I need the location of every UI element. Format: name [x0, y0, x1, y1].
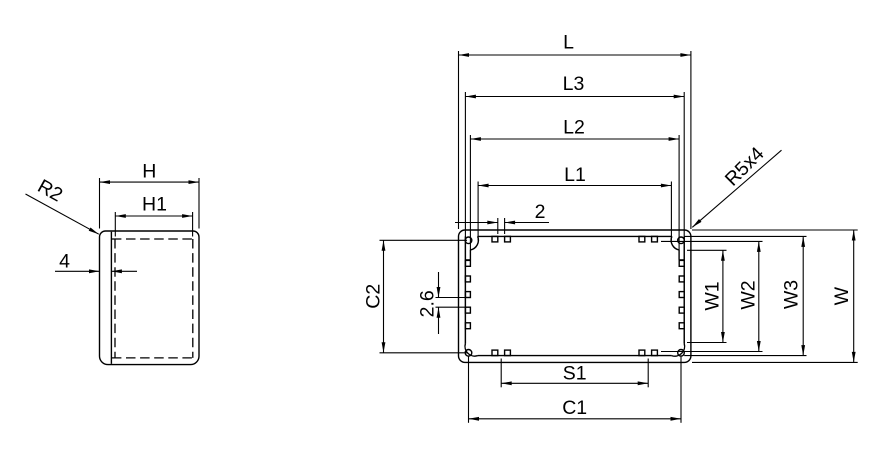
- dimension H: [99, 178, 101, 229]
- svg-text:R2: R2: [34, 175, 66, 206]
- top view inner wall left edge / L3 extension: [464, 92, 466, 344]
- radius callout R2: [26, 194, 99, 234]
- dimension C1: [468, 357, 470, 423]
- dimension W3: [684, 235, 806, 237]
- svg-text:S1: S1: [563, 362, 587, 384]
- svg-text:2.6: 2.6: [417, 290, 439, 317]
- screw hole top-right: [678, 237, 685, 244]
- dimension 4 (wall thickness): [55, 270, 100, 272]
- svg-text:W: W: [831, 286, 853, 305]
- svg-text:L: L: [563, 31, 574, 53]
- dimension L1: [477, 182, 479, 241]
- top view inner wall bottom edge: [478, 355, 672, 357]
- svg-text:L2: L2: [563, 116, 585, 138]
- svg-text:L3: L3: [563, 73, 585, 95]
- dimension L3: [465, 96, 684, 98]
- svg-text:C2: C2: [363, 284, 385, 309]
- dimension L: [458, 51, 460, 229]
- radius callout R5x4: [692, 150, 781, 227]
- top view outer body: [459, 230, 691, 362]
- svg-text:L1: L1: [564, 164, 586, 186]
- dimension W1: [687, 249, 727, 251]
- screw hole bottom-left: [465, 350, 472, 357]
- screw hole bottom-right: [678, 350, 685, 357]
- dimension S1: [500, 359, 502, 388]
- svg-text:H1: H1: [142, 194, 167, 216]
- card-guide tabs bottom wall: [492, 350, 498, 356]
- svg-text:H: H: [142, 160, 156, 182]
- svg-text:W3: W3: [781, 280, 803, 309]
- screw boss step top-left: [469, 250, 471, 260]
- side view lid parting line: [110, 232, 112, 364]
- dimension L2: [469, 135, 471, 250]
- screw boss arc bottom-right: [672, 344, 685, 357]
- dimension W2: [661, 240, 763, 242]
- svg-text:R5x4: R5x4: [721, 143, 769, 191]
- svg-text:W1: W1: [702, 281, 724, 310]
- dimension 2 (slot width): [497, 218, 499, 234]
- top view inner wall top edge: [478, 235, 672, 237]
- card-guide tabs top wall: [492, 236, 498, 242]
- screw boss arc top-right: [671, 236, 679, 250]
- card-guide tabs right wall: [679, 260, 684, 266]
- card-guide tabs left wall: [465, 260, 470, 266]
- svg-text:4: 4: [59, 251, 70, 273]
- screw boss arc bottom-left: [465, 344, 478, 357]
- side view hidden inner cavity (dashed): [112, 238, 193, 240]
- dimension W: [692, 229, 858, 231]
- screw boss arc top-left: [470, 236, 478, 250]
- screw hole top-left: [465, 237, 472, 244]
- dimension 2.6 (slot pitch): [436, 297, 466, 299]
- side view outer body: [100, 231, 200, 365]
- dimension H1: [114, 212, 116, 237]
- screw boss step top-right: [678, 250, 680, 260]
- svg-text:W2: W2: [738, 280, 760, 309]
- top view inner wall right edge / L3 extension: [683, 92, 685, 344]
- dimension C2: [380, 239, 468, 241]
- svg-text:2: 2: [535, 201, 546, 223]
- svg-text:C1: C1: [562, 397, 587, 419]
